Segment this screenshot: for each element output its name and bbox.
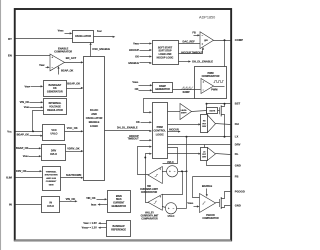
svg-text:BST: BST [235,102,241,106]
svg-text:ADP1850: ADP1850 [199,16,215,20]
summing circle LEB 2 [165,203,176,214]
svg-text:DH_DL_ENABLE: DH_DL_ENABLE [117,126,138,130]
svg-text:gm: gm [204,39,208,42]
node VCC junction [32,130,34,132]
comparator U8 PGOOD comparator [200,194,216,213]
oscillator block [73,31,94,43]
block VREG UVLO [42,145,66,161]
svg-text:OSCILLATOR: OSCILLATOR [86,116,103,120]
svg-text:VIN_OK: VIN_OK [20,100,30,104]
svg-text:AND ILIM: AND ILIM [46,177,56,180]
block bandgap reference [107,221,131,237]
svg-text:EN_ACT: EN_ACT [66,56,77,60]
wire BST [207,103,231,105]
svg-text:REGULATOR: REGULATOR [47,109,63,112]
svg-text:DL: DL [235,152,239,156]
svg-text:DRV: DRV [235,143,241,147]
svg-text:COMPARATOR: COMPARATOR [141,191,158,194]
wire valley comparator output to PWM control logic [146,154,151,203]
svg-text:ENABLE: ENABLE [202,185,213,188]
svg-text:ENABLE: ENABLE [89,120,100,124]
block main bias current generator [108,191,131,213]
block VCC UVLO [43,125,65,141]
svg-text:HICCUP: HICCUP [129,48,139,52]
node VREF output 1.5V [100,223,107,225]
svg-text:UVLO: UVLO [50,153,57,156]
wire PWM comparator output loop to PWM control logic [144,99,195,113]
block bandgap OK generator [44,81,67,97]
wire VIN to IN UVLO [16,204,42,206]
wire LX sense bus [186,137,188,209]
svg-text:CURRENT-LIMIT: CURRENT-LIMIT [140,189,158,191]
svg-text:GND: GND [235,164,241,168]
node VBGAP output 1.2V [100,227,107,229]
svg-text:HICCUP: HICCUP [169,128,179,131]
wire DAC_REF to error amp [179,43,201,45]
svg-text:MAIN: MAIN [116,195,122,198]
svg-text:UVLO: UVLO [168,215,175,218]
svg-text:EN: EN [8,53,12,57]
wire ILIM to thermal block [16,177,43,179]
svg-text:RAMP: RAMP [183,91,190,94]
sawtooth waveform symbol RAMP [181,87,193,90]
node PWM output [214,86,225,88]
driver U5 low side driver [201,148,208,161]
wire LS drive from PWM control logic [168,153,200,155]
wire circle 2 to comparator [163,207,166,208]
block DC-DC and oscillator enable logic [84,57,105,181]
transistor Q1 boost switch [219,107,221,114]
svg-text:SHUTDOWN: SHUTDOWN [45,175,58,177]
svg-text:IN: IN [9,202,12,206]
wire RAMP to PWM comparator [173,89,201,91]
wire BST down to high side driver [206,104,208,115]
wire circle 2 to LX bus [177,208,187,210]
driver U4 high side driver [201,115,208,133]
comparator U1 enable comparator [50,54,65,71]
wire circle 1 to LX bus [178,171,187,173]
svg-text:GENERATOR: GENERATOR [47,91,63,94]
wire driver to gate block [192,111,207,112]
svg-text:GENERATOR: GENERATOR [112,205,127,208]
svg-text:DC-DC: DC-DC [90,108,98,112]
comparator U3 PWM comparator [201,79,214,94]
svg-text:BGAP_OK: BGAP_OK [17,133,30,136]
svg-text:COMPARATOR: COMPARATOR [141,218,158,221]
wire BGAP_OK to enable logic [67,88,82,90]
wire VCC to VCC UVLO [16,131,43,133]
svg-text:DH_DL_ENABLE: DH_DL_ENABLE [192,60,213,64]
wire comparator to circle 1 [163,171,167,173]
svg-text:BGAP_OK: BGAP_OK [67,82,80,86]
summing circle LEB 1 [167,166,178,177]
svg-text:VREF = 1.5V: VREF = 1.5V [83,222,97,225]
junction LX to boost switch source [224,136,226,138]
wire GND [207,161,231,166]
junction on COMP net [224,39,226,41]
svg-text:FB: FB [235,174,239,178]
wire VCC branch to regulator [33,111,44,132]
block soft start / soft stop logic and hiccup logic [153,41,179,65]
svg-text:OK: OK [135,54,139,58]
wire RT to oscillator [16,38,73,40]
svg-text:PGOOD: PGOOD [206,215,215,217]
wire EN to enable comparator [16,55,51,57]
block ramp generator [153,83,173,93]
block PWM comparator enclosure [195,67,227,99]
svg-text:SOFT START: SOFT START [158,46,173,49]
svg-text:PGOOD: PGOOD [235,189,245,193]
junction BST to high side driver supply [206,103,208,105]
wire HS drive from PWM control logic [168,124,200,126]
svg-text:OK: OK [136,120,140,124]
wire SHUTDOWN to enable logic [61,177,82,179]
node VIN_OK output [60,201,76,203]
block IN UVLO [42,197,60,213]
svg-text:OK: OK [135,87,139,91]
svg-text:UVLO: UVLO [51,133,58,136]
svg-text:HICCUP TIMEOUT: HICCUP TIMEOUT [181,51,203,54]
svg-text:DAC_REF: DAC_REF [183,40,196,44]
node DH_DL_ENABLE output [179,61,190,63]
svg-text:VCC_OK: VCC_OK [67,126,78,130]
comparator U6 SW current-limit comparator [148,167,162,184]
svg-text:SOFT STOP: SOFT STOP [159,51,172,53]
svg-text:PWM: PWM [157,126,163,129]
svg-text:ENABLE: ENABLE [128,61,139,65]
wire PWM control logic to level shift driver [168,111,181,113]
node IBIAS output [100,204,108,206]
svg-text:GEN: GEN [49,184,54,186]
clock waveform symbol [214,81,224,83]
wire LX [168,136,231,138]
svg-text:COMPARATOR: COMPARATOR [54,50,72,53]
svg-text:DRV_OK: DRV_OK [16,170,27,173]
wire DL output [216,154,231,155]
bottom border gray [14,240,231,242]
svg-text:VIN_OK: VIN_OK [86,197,96,200]
comparator U7 valley current-limit comparator [148,194,162,210]
node BGAP_OK into enable comparator [58,69,60,75]
wire FB into PGOOD comparator [193,177,200,198]
wire OSC_ENABLE from logic block up to oscillator [90,45,92,57]
svg-text:VIN_OK: VIN_OK [66,197,76,201]
svg-text:CURRENT-LIMIT: CURRENT-LIMIT [141,216,159,218]
svg-text:REFERENCE: REFERENCE [111,229,126,232]
svg-text:COMPARATOR: COMPARATOR [202,75,220,78]
wire DRV rail [168,144,231,146]
svg-text:DH: DH [235,122,239,126]
wire EN_ACT to enable logic [65,62,82,64]
svg-text:OSCILLATOR: OSCILLATOR [75,35,91,38]
wire valley comparator reference [163,172,183,195]
block internal voltage regulator [44,99,67,115]
buffer level shift driver [180,104,192,120]
svg-text:UVLO: UVLO [47,205,54,208]
op-amp U2 gm error amplifier [200,32,214,49]
wire VCC_OK to enable logic [65,131,82,133]
svg-text:BIAS: BIAS [116,198,122,201]
wire DH output [216,124,231,125]
svg-text:GATE: GATE [209,109,215,112]
wire gate block to boost FET gate [218,110,220,112]
svg-text:CURRENT: CURRENT [113,203,125,205]
svg-text:RAMP: RAMP [159,85,166,88]
wire DRV down into low side driver [204,145,206,148]
svg-text:RT: RT [8,37,12,41]
svg-text:GND: GND [235,203,241,207]
left page edge line [0,0,2,250]
svg-text:CURRENT: CURRENT [46,181,57,183]
svg-text:TIMEOUT: TIMEOUT [127,138,139,141]
wire FB from pin [193,176,231,178]
node fOSC output [94,36,114,38]
block PWM control logic [153,103,168,159]
svg-text:LOGIC: LOGIC [156,133,164,136]
svg-text:SHUTDOWN: SHUTDOWN [66,173,81,177]
svg-text:ILIM: ILIM [6,175,12,179]
junction BST to boost switch [224,103,226,105]
svg-text:LX: LX [235,135,239,139]
svg-text:FB: FB [192,31,196,35]
svg-text:SHIFT: SHIFT [181,112,187,114]
wire COMP output [214,40,231,42]
transistor Q2 PGOOD open-drain FET [219,199,221,207]
svg-text:THERMAL: THERMAL [46,170,57,173]
svg-text:BGAP_OK: BGAP_OK [61,69,74,72]
svg-text:VBGAP = 1.2V: VBGAP = 1.2V [82,227,97,230]
wire DH_DL_ENABLE from enable logic [105,130,151,132]
svg-text:COMPARATOR: COMPARATOR [202,217,219,220]
svg-text:VALLEY: VALLEY [145,212,154,215]
svg-text:COMP: COMP [235,38,243,42]
svg-text:CONTROL: CONTROL [154,130,167,133]
svg-text:BGAP_OK: BGAP_OK [16,147,29,150]
block gate [207,108,218,114]
block thermal shutdown and current limit generator [43,167,61,191]
wire from PWM control logic to comparator top [163,148,178,164]
svg-text:AND: AND [91,112,97,116]
svg-text:GENERATOR: GENERATOR [155,88,170,91]
wire HICCUP TIMEOUT to error amp [179,49,203,54]
wire COMP down to PWM comparator [224,41,226,67]
node HICCUP output [168,131,179,133]
svg-text:VDRV_OK: VDRV_OK [67,146,80,150]
wire SW comparator output to PWM control logic [138,147,151,175]
svg-text:HICCUP LOGIC: HICCUP LOGIC [157,57,174,59]
diagram border frame [15,9,231,240]
svg-text:LOGIC: LOGIC [90,124,98,128]
wire VREG_OK to enable logic [66,151,82,153]
svg-text:PWM: PWM [211,89,217,92]
svg-text:LOGIC AND: LOGIC AND [159,53,172,56]
junction LX to current sense bus [186,136,188,138]
svg-text:OSC_ENABLE: OSC_ENABLE [92,47,110,51]
